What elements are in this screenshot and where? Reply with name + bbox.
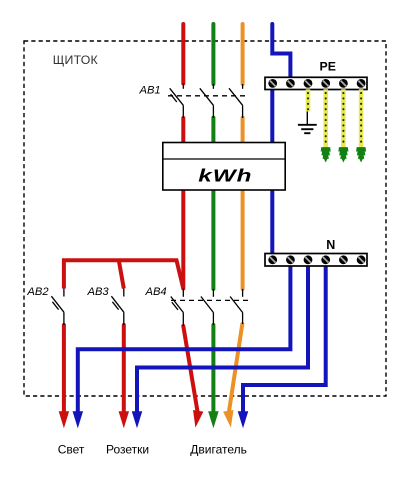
svg-text:Розетки: Розетки [106,443,149,457]
svg-text:ЩИТОК: ЩИТОК [53,53,99,67]
svg-text:АВ3: АВ3 [87,286,110,298]
svg-text:N: N [326,238,335,252]
svg-text:Двигатель: Двигатель [190,443,247,457]
svg-text:Свет: Свет [58,443,85,457]
svg-text:АВ4: АВ4 [145,286,167,298]
svg-text:АВ2: АВ2 [26,286,49,298]
svg-text:kWh: kWh [198,166,252,186]
svg-text:АВ1: АВ1 [139,84,161,96]
svg-text:PE: PE [320,59,336,73]
